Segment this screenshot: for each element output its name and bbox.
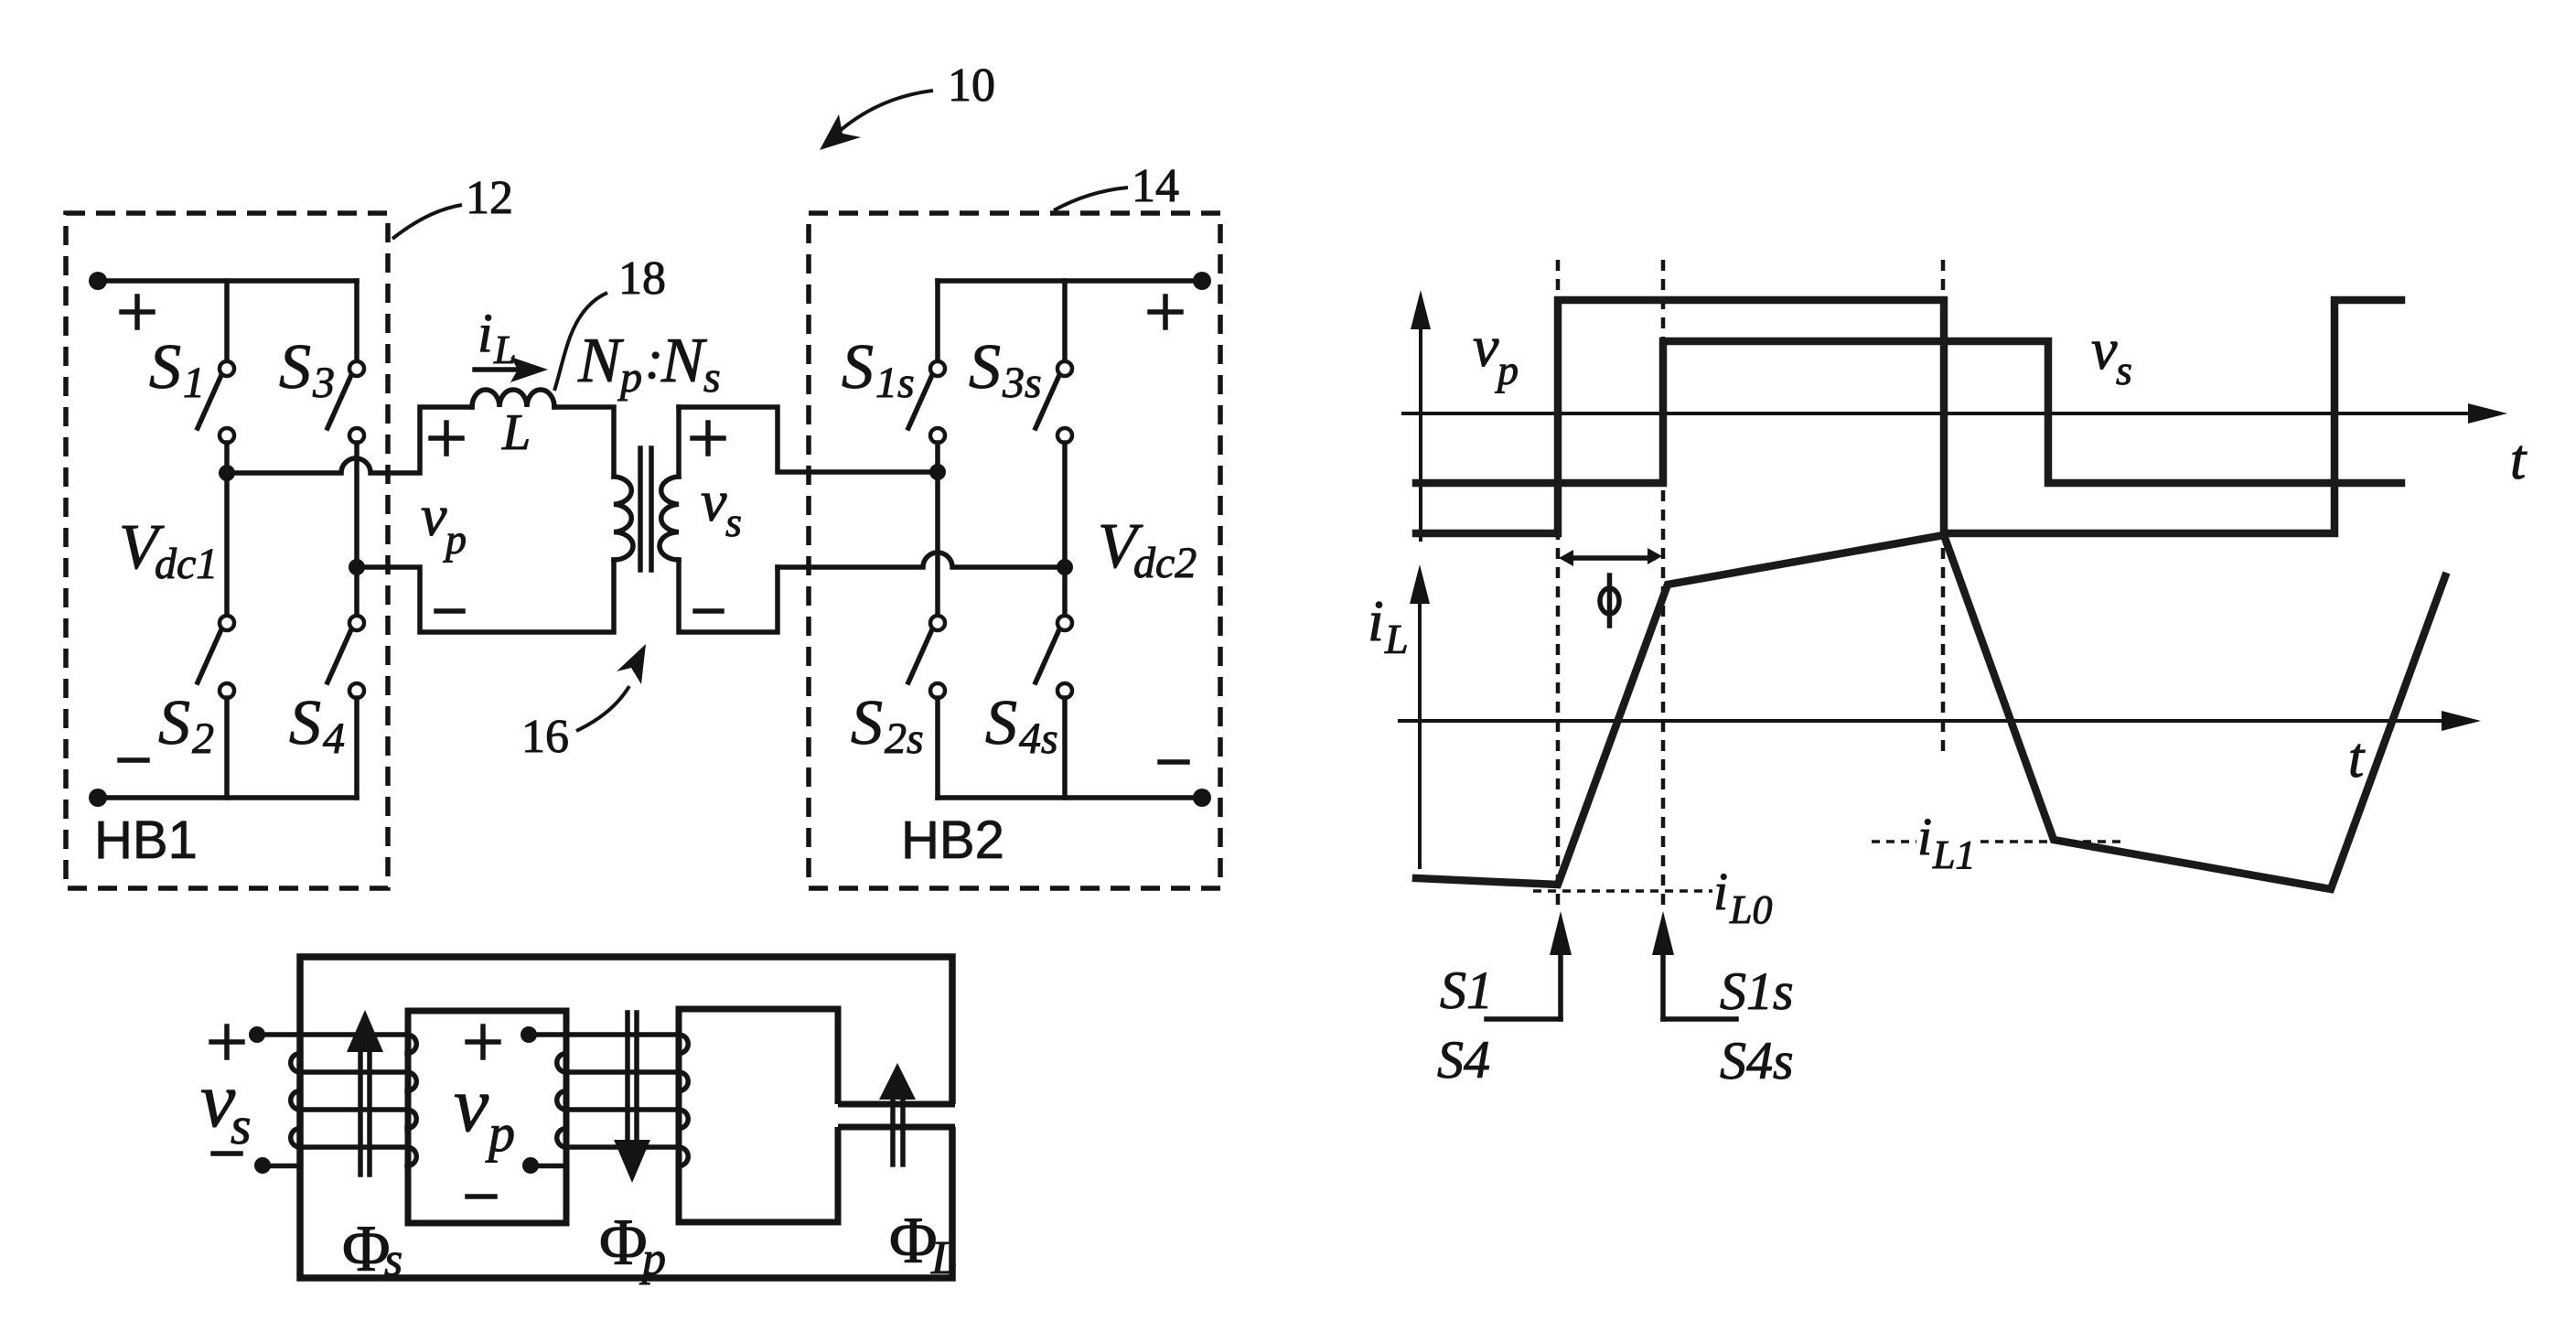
- wire: S1-S2 leg: [224, 443, 230, 616]
- S1 S4 switching arrow: [1558, 953, 1563, 1019]
- switch S3: [349, 361, 364, 376]
- terminal + of Vdc1: [89, 272, 107, 290]
- switch S2: [220, 616, 234, 630]
- S1s S4s switching arrow: [1660, 953, 1666, 1019]
- svg-text:16: 16: [521, 711, 569, 763]
- air gap slot lines: [838, 1104, 955, 1127]
- leader arrow for 16: [576, 686, 629, 731]
- terminal - of vp winding: [522, 1157, 539, 1174]
- waveform vp: [1416, 300, 2401, 533]
- svg-text:3: 3: [312, 359, 335, 407]
- node: junction S3s-S4s midpoint: [1057, 559, 1073, 575]
- svg-text:v: v: [1473, 314, 1499, 379]
- svg-text:s: s: [703, 353, 721, 402]
- svg-text:S: S: [279, 332, 311, 403]
- plus sign vp winding: [467, 1026, 499, 1057]
- dashed timing line 3: [1941, 260, 1946, 752]
- switch S1: [220, 361, 234, 376]
- HB1 dashed box: [66, 213, 388, 888]
- svg-text:S: S: [851, 688, 883, 758]
- svg-text:HB1: HB1: [94, 810, 198, 870]
- svg-text:p: p: [617, 353, 642, 402]
- svg-text:L: L: [493, 327, 516, 372]
- svg-text:p: p: [443, 516, 467, 563]
- current arrow iL: [475, 367, 517, 372]
- core window 2: [679, 1009, 838, 1222]
- switch S1s: [930, 361, 945, 376]
- svg-text:L: L: [1384, 616, 1409, 662]
- terminal + of vs winding: [249, 1026, 265, 1043]
- svg-text:L: L: [930, 1232, 958, 1284]
- plus sign Vdc2: [1150, 296, 1181, 327]
- wire: S2s bottom stub: [935, 698, 940, 798]
- wire: S3s top stub: [1062, 281, 1068, 360]
- node: junction S1s-S2s midpoint: [929, 464, 946, 480]
- switch S3s: [1057, 361, 1072, 376]
- wire: HB1 output to vp+ with hop over S3 leg: [227, 407, 472, 473]
- dashed level iL0: [1533, 889, 1712, 893]
- wire: S3-S4 leg: [354, 443, 360, 616]
- flux arrow Phi_s: [358, 1052, 363, 1175]
- svg-text:Φ: Φ: [889, 1204, 938, 1277]
- minus sign Vdc2: [1160, 759, 1187, 765]
- svg-text:v: v: [2091, 317, 2118, 381]
- dashed timing line 1: [1556, 260, 1561, 906]
- wire: vp loop bottom: [357, 560, 614, 632]
- svg-text:p: p: [639, 1233, 666, 1285]
- svg-text:N: N: [577, 326, 624, 396]
- svg-text::: :: [645, 329, 663, 390]
- terminal + of vp winding: [521, 1026, 537, 1043]
- wire: S1 top stub: [224, 281, 230, 360]
- wire: inductor to transformer primary top: [554, 407, 614, 477]
- svg-text:s: s: [231, 1096, 252, 1155]
- wire: S2 bottom stub: [224, 698, 230, 798]
- svg-text:S1s: S1s: [1720, 961, 1794, 1021]
- svg-text:p: p: [1495, 347, 1519, 393]
- upper plot t-axis: [1401, 412, 2474, 415]
- svg-text:L1: L1: [1932, 832, 1975, 877]
- flux arrow Phi_p: [625, 1013, 630, 1140]
- svg-text:t: t: [2348, 727, 2366, 789]
- wire: vs- to HB2 with hop over S1s leg: [778, 553, 1065, 567]
- svg-text:S: S: [149, 332, 181, 403]
- upper plot y-axis: [1419, 320, 1422, 542]
- plus sign Vdc1: [122, 296, 153, 327]
- minus sign vs winding: [213, 1151, 241, 1156]
- vs winding on left leg: [264, 1035, 416, 1166]
- magnetic core outline with air gap in right leg: [300, 957, 952, 1278]
- svg-text:18: 18: [618, 252, 666, 305]
- svg-text:4: 4: [323, 714, 345, 763]
- svg-text:Φ: Φ: [599, 1206, 648, 1279]
- iL plot t-axis: [1398, 719, 2448, 723]
- wire: HB2 bottom rail: [938, 795, 1202, 800]
- svg-text:N: N: [660, 326, 707, 396]
- svg-text:1: 1: [183, 359, 205, 407]
- svg-text:1s: 1s: [875, 359, 915, 407]
- transformer core lines: [638, 448, 643, 570]
- svg-text:v: v: [701, 468, 727, 533]
- svg-text:v: v: [454, 1060, 489, 1148]
- svg-text:s: s: [384, 1234, 402, 1286]
- leader line for 18: [554, 293, 607, 391]
- svg-text:i: i: [478, 303, 493, 363]
- svg-text:s: s: [725, 499, 742, 545]
- wire: HB1 bottom rail: [98, 795, 357, 800]
- leader arrow for 10: [840, 91, 933, 131]
- wire: HB2 top rail: [938, 278, 1202, 284]
- wire: S3 top stub: [354, 281, 360, 360]
- svg-text:S: S: [985, 688, 1017, 758]
- svg-text:v: v: [421, 483, 447, 548]
- vp winding on center leg: [536, 1035, 688, 1166]
- plus sign vp: [431, 423, 462, 454]
- iL plot y-axis: [1418, 596, 1422, 869]
- terminal - of Vdc2: [1193, 789, 1211, 807]
- svg-text:HB2: HB2: [901, 810, 1004, 870]
- transformer secondary winding: [660, 477, 679, 560]
- wire: S4s bottom stub: [1062, 698, 1068, 798]
- svg-text:i: i: [1917, 807, 1932, 866]
- switch S2s: [930, 616, 945, 630]
- dashed timing line 2: [1661, 260, 1666, 909]
- plus sign vs winding: [211, 1026, 242, 1057]
- wire: S1s top stub: [935, 281, 940, 360]
- switch S4: [349, 616, 364, 630]
- svg-text:L: L: [501, 404, 531, 461]
- svg-text:S: S: [842, 332, 874, 403]
- node: junction S3-S4 midpoint: [349, 559, 365, 575]
- HB2 dashed box: [809, 213, 1220, 888]
- waveform vs: [1416, 341, 2401, 483]
- minus sign vp winding: [467, 1194, 495, 1199]
- flux arrow Phi_L: [890, 1100, 896, 1165]
- minus sign vp: [436, 608, 463, 614]
- svg-text:t: t: [2510, 429, 2528, 491]
- svg-text:dc2: dc2: [1133, 539, 1197, 587]
- plus sign vs: [692, 423, 724, 454]
- svg-text:2s: 2s: [885, 714, 924, 763]
- phase shift double arrow: [1568, 555, 1653, 561]
- svg-text:dc1: dc1: [155, 540, 218, 588]
- waveform iL: [1416, 535, 2445, 889]
- wire: HB1 top rail: [98, 278, 357, 284]
- svg-text:S: S: [289, 688, 321, 758]
- svg-text:i: i: [1713, 862, 1728, 921]
- wire: vs loop top to HB2: [679, 407, 938, 472]
- svg-text:12: 12: [466, 172, 513, 224]
- leader line for 14: [1054, 188, 1128, 210]
- svg-text:S: S: [158, 688, 190, 758]
- terminal - of vs winding: [254, 1157, 271, 1174]
- svg-text:14: 14: [1132, 160, 1179, 212]
- svg-text:p: p: [485, 1103, 515, 1163]
- svg-text:S1: S1: [1440, 961, 1493, 1020]
- switch S4s: [1057, 616, 1072, 630]
- svg-text:10: 10: [948, 59, 995, 112]
- node: junction S1-S2 midpoint: [219, 465, 235, 481]
- transformer primary winding: [614, 477, 633, 560]
- minus sign Vdc1: [120, 757, 147, 763]
- phi symbol: [1600, 588, 1619, 614]
- wire: secondary top stub: [676, 407, 682, 477]
- svg-text:Φ: Φ: [342, 1212, 391, 1285]
- wire: S3s-S4s leg: [1062, 443, 1068, 616]
- wire: S1s-S2s leg: [935, 443, 940, 616]
- inductor L: [472, 390, 554, 407]
- svg-text:4s: 4s: [1019, 714, 1058, 763]
- svg-text:S4s: S4s: [1720, 1031, 1794, 1090]
- terminal - of Vdc1: [89, 789, 107, 807]
- core window 1: [408, 1011, 566, 1223]
- leader line for 12: [392, 205, 462, 239]
- svg-text:S4: S4: [1437, 1030, 1490, 1089]
- wire: S4 bottom stub: [354, 698, 360, 798]
- wire: vs loop bottom: [679, 560, 778, 632]
- svg-text:s: s: [2116, 347, 2132, 393]
- svg-text:i: i: [1368, 588, 1384, 653]
- svg-text:2: 2: [192, 714, 214, 763]
- svg-text:L0: L0: [1729, 887, 1772, 932]
- terminal + of Vdc2: [1193, 272, 1211, 290]
- svg-text:3s: 3s: [1002, 359, 1042, 407]
- dashed level iL1: [1872, 840, 1916, 843]
- svg-text:S: S: [969, 332, 1001, 403]
- minus sign vs: [695, 608, 722, 614]
